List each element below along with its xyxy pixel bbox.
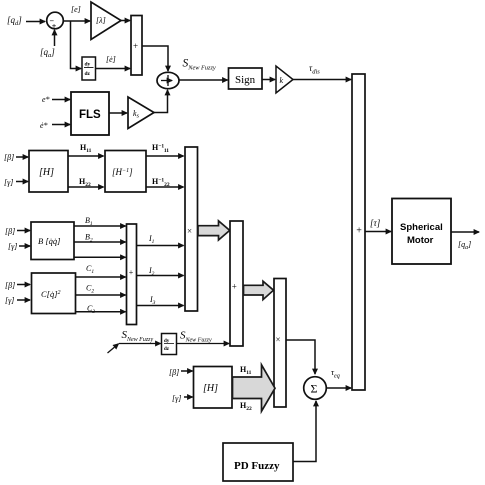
svg-text:[H]: [H] — [203, 383, 218, 394]
wire gamma to C — [17, 299, 30, 301]
wire beta to H2 — [181, 370, 193, 372]
wire I1 to bar1 — [137, 245, 184, 247]
wire edot* to FLS — [52, 124, 70, 126]
svg-text:Spherical: Spherical — [400, 222, 443, 233]
wire qa up into junction — [54, 30, 56, 46]
wire adder to Sign — [179, 79, 228, 81]
wire H22 — [68, 186, 104, 188]
svg-text:dy: dy — [85, 62, 91, 68]
wire bar A to adder circle — [142, 46, 168, 71]
svg-text:×: × — [276, 335, 281, 345]
wire bar3 to sigma — [286, 340, 315, 374]
svg-text:e*: e* — [42, 95, 50, 104]
block [H] — [29, 151, 68, 193]
gain ks triangle — [128, 97, 154, 129]
wire I2 to bar1 — [137, 275, 184, 277]
wire B1 to bar S — [74, 225, 126, 227]
wire C3 to bar S — [76, 311, 126, 313]
svg-text:[β]: [β] — [169, 368, 179, 377]
block [H] lower — [194, 367, 233, 409]
derivative block d/dt (top) — [82, 57, 96, 80]
PD Fuzzy block — [223, 443, 293, 481]
wire gamma to H2 — [184, 396, 193, 398]
wire beta to B — [17, 230, 30, 232]
svg-text:+: + — [133, 41, 138, 51]
wire branch down to derivative — [71, 21, 82, 69]
summation bar S — [127, 224, 137, 325]
wire derivative to sum bar — [96, 68, 131, 70]
wire junction to lambda gain — [63, 20, 90, 22]
svg-text:dz: dz — [164, 347, 170, 352]
wire PD Fuzzy to sigma — [293, 401, 316, 462]
wire bar R to motor — [365, 231, 391, 233]
svg-text:+: + — [52, 22, 57, 31]
svg-text:B [q̇q̇]: B [q̇q̇] — [38, 236, 60, 246]
adder circle (plus with arrow) — [157, 72, 179, 88]
svg-text:PD Fuzzy: PD Fuzzy — [234, 460, 280, 472]
wire lambda to sum bar — [121, 20, 130, 22]
gain [lambda] triangle — [91, 2, 121, 40]
svg-text:k: k — [280, 76, 284, 85]
svg-text:FLS: FLS — [79, 109, 101, 121]
svg-text:dz: dz — [85, 71, 91, 77]
wire B2 to bar S — [74, 241, 126, 243]
svg-text:[H]: [H] — [39, 167, 54, 178]
wire derivative2 to bar2 — [176, 343, 229, 345]
Sign block — [229, 68, 263, 89]
svg-text:[ė]: [ė] — [106, 55, 116, 64]
wire Sign to k gain — [262, 79, 275, 81]
wire H^-1 22 to bar1 — [146, 186, 184, 188]
wire qd to summing junction — [26, 21, 45, 23]
wire gamma to H — [16, 181, 28, 183]
svg-text:[τ]: [τ] — [370, 218, 381, 228]
svg-text:Motor: Motor — [407, 235, 434, 246]
wire motor output — [451, 231, 479, 233]
FLS block — [71, 92, 109, 135]
wire C2 to bar S — [76, 294, 126, 296]
wire ks to adder circle — [154, 90, 168, 113]
wire I3 to bar1 — [137, 305, 184, 307]
wire to derivative 2 — [119, 343, 161, 345]
svg-text:ė*: ė* — [40, 121, 48, 130]
svg-text:[γ]: [γ] — [4, 178, 13, 187]
wire C1 to bar S — [76, 276, 126, 278]
block [H^-1] — [105, 151, 146, 193]
svg-text:[β]: [β] — [5, 281, 15, 290]
big block arrow H to bar3 — [233, 365, 276, 411]
multiplier bar 3 — [274, 279, 286, 408]
sigma summing circle — [304, 377, 327, 400]
wire B3 to bar S — [74, 256, 126, 258]
wire S_NewFuzzy diagonal lead-in — [108, 344, 119, 353]
svg-text:[γ]: [γ] — [172, 394, 181, 403]
svg-text:[β]: [β] — [5, 227, 15, 236]
svg-text:[γ]: [γ] — [8, 242, 17, 251]
block C[qdot]^2 — [32, 273, 76, 314]
svg-text:[β]: [β] — [4, 153, 14, 162]
gain k triangle — [276, 66, 293, 93]
wire beta to H — [16, 156, 28, 158]
svg-text:Sign: Sign — [235, 74, 256, 86]
summation bar A — [131, 16, 142, 76]
block arrow bar2 to bar3 — [244, 281, 274, 299]
wire gamma to B — [19, 245, 30, 247]
wire k to torque bar — [293, 79, 351, 81]
torque summation bar R — [352, 74, 365, 390]
wire H11 — [68, 155, 104, 157]
summation bar 2 — [230, 221, 243, 346]
multiplier bar 1 — [185, 147, 198, 311]
svg-text:Σ: Σ — [311, 382, 318, 396]
svg-text:[γ]: [γ] — [5, 296, 14, 305]
svg-text:+: + — [356, 226, 362, 237]
wire FLS to ks gain — [109, 112, 127, 114]
wire beta to C — [17, 284, 30, 286]
wire e* to FLS — [52, 99, 70, 101]
block arrow bar1 to bar2 — [198, 221, 230, 240]
svg-text:[e]: [e] — [71, 5, 81, 14]
svg-text:+: + — [129, 268, 134, 277]
summing junction S1 — [47, 12, 64, 29]
svg-text:+: + — [232, 282, 237, 292]
svg-text:[λ]: [λ] — [96, 16, 106, 25]
wire H^-1 11 to bar1 — [146, 155, 184, 157]
derivative block d/dt (bottom) — [162, 334, 177, 355]
block B[qdot qdot] — [31, 222, 74, 260]
Spherical Motor block — [392, 199, 451, 265]
wire sigma to bar R — [327, 387, 352, 389]
svg-text:×: × — [187, 226, 192, 236]
